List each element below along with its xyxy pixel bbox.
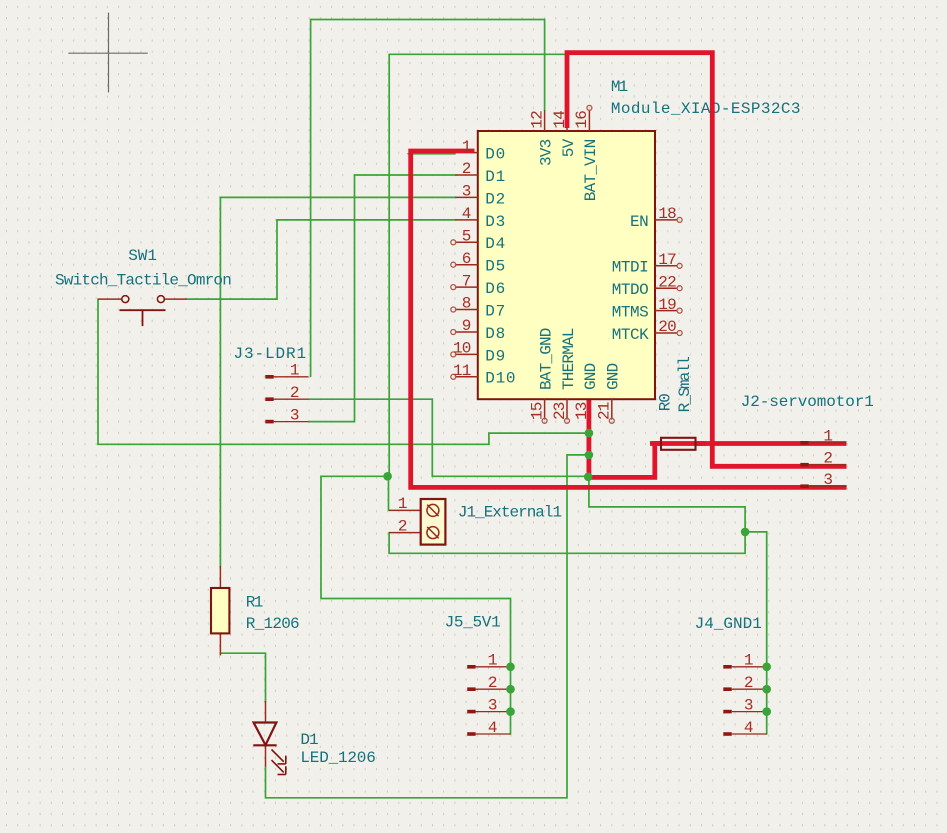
svg-text:16: 16 xyxy=(573,111,591,129)
module pin 11 D10 (left) xyxy=(451,362,516,388)
svg-text:BAT_VIN: BAT_VIN xyxy=(582,139,600,201)
svg-text:19: 19 xyxy=(658,296,676,314)
module pin 17 MTDI (right) xyxy=(612,251,682,277)
svg-text:18: 18 xyxy=(658,205,676,223)
svg-text:2: 2 xyxy=(488,674,498,692)
svg-text:MTDI: MTDI xyxy=(612,259,648,277)
thick wire D0: module pin 1 left, down and right to servo pin 3 xyxy=(411,151,847,487)
svg-text:3: 3 xyxy=(744,696,754,714)
svg-text:BAT_GND: BAT_GND xyxy=(537,328,555,390)
svg-text:3: 3 xyxy=(488,696,498,714)
junction GND at thick-wire corner xyxy=(584,473,593,482)
connector J2 pin 3 xyxy=(800,471,846,489)
module pin 18 EN (right) xyxy=(630,205,682,231)
connector J5 pin 2 xyxy=(467,674,515,694)
connector J3 pin 2 xyxy=(265,384,308,402)
svg-text:D1: D1 xyxy=(300,731,318,749)
svg-text:J3-LDR1: J3-LDR1 xyxy=(234,345,308,363)
connector J4 pin 4 xyxy=(723,719,766,737)
wire 3V3 net: J3 pin1 up and over to module pin 12 xyxy=(311,20,545,377)
junction GND at module pin 13 column (LED wire) xyxy=(585,451,594,460)
wire GND net: junction down-left to J1 pin 2 xyxy=(389,532,745,553)
wire 5V net: junction down to J1 pin 1 xyxy=(388,476,390,510)
module pin 7 D6 (left) xyxy=(451,272,506,298)
op-amp U1 body: module M1 XIAO-ESP32C3 rectangle xyxy=(478,131,655,399)
svg-text:2: 2 xyxy=(744,674,754,692)
junction GND above J4 xyxy=(741,528,750,537)
svg-text:3: 3 xyxy=(290,406,300,424)
thick wire 5V: module pin 14 up, over and down to servo pin 2 xyxy=(567,53,847,467)
svg-text:2: 2 xyxy=(823,450,833,468)
svg-text:6: 6 xyxy=(462,250,471,268)
svg-text:12: 12 xyxy=(528,111,546,129)
svg-text:1: 1 xyxy=(744,652,754,670)
module pin 5 D4 (left) xyxy=(451,228,506,254)
wire D2 net: resistor R1 bottom to LED anode xyxy=(220,653,265,701)
wire D3 net: module pin 4 to switch right pin xyxy=(187,220,456,299)
svg-text:R_Small: R_Small xyxy=(676,357,694,413)
svg-text:2: 2 xyxy=(290,384,300,402)
svg-text:J5_5V1: J5_5V1 xyxy=(445,614,501,632)
wire GND net: switch left pin down and over to module GND column xyxy=(98,299,589,444)
svg-text:10: 10 xyxy=(453,340,471,358)
thick wire GND: module pin 13 down, right, up through R0 to servo pin 1 xyxy=(589,399,847,478)
svg-text:3: 3 xyxy=(462,183,471,201)
svg-text:D0: D0 xyxy=(485,146,506,164)
svg-text:D1: D1 xyxy=(485,168,506,186)
svg-text:1: 1 xyxy=(462,138,471,156)
svg-text:R1: R1 xyxy=(246,593,263,611)
svg-text:1: 1 xyxy=(823,428,833,446)
svg-text:D2: D2 xyxy=(485,190,506,208)
svg-text:D4: D4 xyxy=(485,235,506,253)
svg-text:9: 9 xyxy=(462,317,471,335)
svg-text:4: 4 xyxy=(488,719,498,737)
svg-text:4: 4 xyxy=(462,205,471,223)
svg-text:D6: D6 xyxy=(485,280,506,298)
junction GND at module pin 13 column (switch wire) xyxy=(585,429,594,438)
svg-text:14: 14 xyxy=(551,111,569,129)
module pin 13 GND (bottom) xyxy=(573,363,600,420)
connector J4 pin 1 xyxy=(723,652,771,672)
svg-text:SW1: SW1 xyxy=(128,247,157,265)
svg-text:MTDO: MTDO xyxy=(612,281,648,299)
svg-text:13: 13 xyxy=(573,402,591,420)
svg-text:2: 2 xyxy=(398,517,408,535)
connector J4 pin 2 xyxy=(723,674,771,694)
svg-text:R0: R0 xyxy=(657,394,675,412)
svg-text:23: 23 xyxy=(551,402,569,420)
module pin 20 MTCK (right) xyxy=(612,318,682,344)
module pin 19 MTMS (right) xyxy=(612,296,682,322)
resistor R0 body xyxy=(650,438,706,450)
svg-text:5V: 5V xyxy=(560,138,578,157)
svg-text:J1_External1: J1_External1 xyxy=(458,503,562,521)
module pin 8 D7 (left) xyxy=(451,295,506,321)
svg-text:4: 4 xyxy=(744,719,754,737)
svg-text:THERMAL: THERMAL xyxy=(560,328,578,390)
connector J1 screw terminal body xyxy=(389,499,445,545)
module pin 16 BAT_VIN (top) xyxy=(573,105,600,201)
module pin 23 THERMAL (bottom) xyxy=(551,328,578,423)
svg-text:2: 2 xyxy=(462,160,471,178)
svg-text:MTCK: MTCK xyxy=(612,326,649,344)
svg-text:D10: D10 xyxy=(485,370,516,388)
svg-text:15: 15 xyxy=(528,402,546,420)
svg-text:11: 11 xyxy=(453,362,471,380)
module pin 2 D1 (left) xyxy=(455,160,506,186)
LED D1 xyxy=(253,701,285,775)
svg-text:D8: D8 xyxy=(485,325,506,343)
wire 5V net: top horizontal under thick red to pin 14 xyxy=(389,53,710,55)
svg-text:D5: D5 xyxy=(485,258,506,276)
svg-text:MTMS: MTMS xyxy=(612,304,648,322)
module pin 12 3V3 (top) xyxy=(528,110,555,166)
svg-text:5: 5 xyxy=(462,228,471,246)
connector J5 pin 4 xyxy=(467,719,510,737)
module pin 4 D3 (left) xyxy=(455,205,506,231)
wire 5V net: vertical from top down to junction near J1 xyxy=(388,54,390,476)
svg-text:D3: D3 xyxy=(485,213,506,231)
origin crosshair xyxy=(68,13,147,93)
svg-text:1: 1 xyxy=(290,362,300,380)
svg-text:GND: GND xyxy=(605,363,623,390)
svg-text:3V3: 3V3 xyxy=(537,139,555,166)
module pin 14 5V (top) xyxy=(551,111,578,157)
svg-text:J2-servomotor1: J2-servomotor1 xyxy=(741,393,874,411)
svg-text:D9: D9 xyxy=(485,347,506,365)
switch SW1 tactile symbol xyxy=(98,296,187,327)
svg-text:Module_XIAO-ESP32C3: Module_XIAO-ESP32C3 xyxy=(611,100,801,118)
module pin 21 GND (bottom) xyxy=(596,363,623,423)
svg-text:GND: GND xyxy=(582,363,600,390)
module pin 22 MTDO (right) xyxy=(612,273,682,299)
svg-text:1: 1 xyxy=(398,495,408,513)
svg-text:3: 3 xyxy=(823,471,833,489)
module pin 6 D5 (left) xyxy=(451,250,506,276)
connector J4 pin 3 xyxy=(723,696,771,715)
wire GND net: junction right-down to connector J4 pins xyxy=(745,532,767,734)
svg-text:21: 21 xyxy=(596,402,614,420)
connector J5 pin 3 xyxy=(467,696,515,715)
svg-text:22: 22 xyxy=(658,273,676,291)
module pin 10 D9 (left) xyxy=(451,340,506,366)
wire D0 net: hidden green under thick red at module pin 1 xyxy=(408,153,455,155)
connector J2 pin 1 xyxy=(800,428,846,446)
connector J3 pin 3 xyxy=(265,406,308,424)
module pin 9 D8 (left) xyxy=(451,317,506,343)
svg-text:7: 7 xyxy=(462,272,471,290)
wire 5V net: junction left-down to connector J5 xyxy=(321,476,511,734)
wire hidden green stub at servo pin 3 xyxy=(836,485,846,487)
wire GND net: J3 pin 2 over to GND corner xyxy=(309,399,588,476)
svg-text:20: 20 xyxy=(658,318,676,336)
svg-text:M1: M1 xyxy=(611,78,628,96)
connector J3 pin 1 xyxy=(265,362,308,380)
svg-text:R_1206: R_1206 xyxy=(246,615,299,633)
junction 5V near J1 pin 1 xyxy=(383,472,392,481)
svg-text:Switch_Tactile_Omron: Switch_Tactile_Omron xyxy=(55,271,231,289)
svg-text:17: 17 xyxy=(658,251,676,269)
module pin 15 BAT_GND (bottom) xyxy=(528,328,555,423)
module pin 1 D0 (left) xyxy=(462,138,506,164)
svg-text:1: 1 xyxy=(488,652,498,670)
svg-text:LED_1206: LED_1206 xyxy=(300,749,375,767)
svg-text:8: 8 xyxy=(462,295,471,313)
connector J5 pin 1 xyxy=(467,652,515,672)
svg-text:D7: D7 xyxy=(485,302,506,320)
wire D1 net: module pin 2 to J3 pin 3 xyxy=(309,175,457,422)
module pin 3 D2 (left) xyxy=(455,183,506,209)
connector J2 pin 2 xyxy=(800,450,846,468)
wire GND net: from thick-wire corner down and over to J4 xyxy=(589,478,745,532)
svg-text:EN: EN xyxy=(630,213,648,231)
resistor R1 xyxy=(211,566,229,656)
wire D2 net: module pin 3 down to resistor R1 xyxy=(220,197,456,566)
svg-text:J4_GND1: J4_GND1 xyxy=(695,615,762,633)
wire GND net: from junction left-down to LED cathode xyxy=(266,455,589,798)
